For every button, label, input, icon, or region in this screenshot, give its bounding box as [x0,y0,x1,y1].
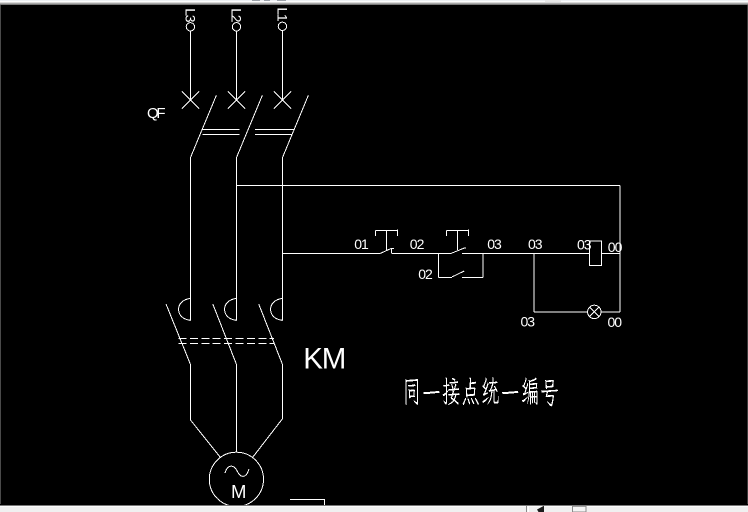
svg-text:QF: QF [147,105,166,122]
svg-text:00: 00 [608,239,623,255]
svg-text:03: 03 [487,236,502,252]
svg-text:01: 01 [354,236,369,252]
svg-text:02: 02 [410,236,425,252]
svg-text:KM: KM [303,343,346,376]
svg-text:00: 00 [608,314,623,330]
svg-text:03: 03 [577,237,592,253]
svg-text:M: M [231,481,246,502]
svg-text:03: 03 [521,313,536,329]
svg-text:02: 02 [418,266,433,282]
svg-text:L2: L2 [229,8,245,23]
svg-text:03: 03 [528,236,543,252]
svg-text:L1: L1 [275,7,291,22]
svg-text:L3: L3 [183,8,199,23]
